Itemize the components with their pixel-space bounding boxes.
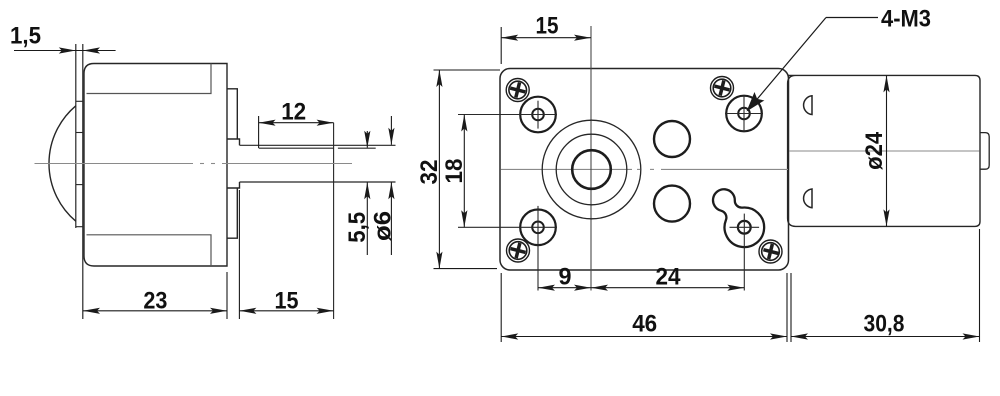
body inner contour bottom bbox=[87, 235, 212, 266]
svg-text:9: 9 bbox=[559, 264, 572, 291]
shaft top line bbox=[240, 144, 396, 146]
dimension 32 bbox=[434, 70, 501, 269]
mounting hole bottom-left bbox=[458, 206, 557, 291]
shaft D-flat line bbox=[259, 147, 334, 149]
flat extension segment bbox=[338, 147, 376, 149]
svg-text:4-M3: 4-M3 bbox=[881, 6, 931, 33]
dimension 5,5 bbox=[366, 131, 368, 255]
screw bottom-left bbox=[507, 239, 530, 262]
screw top-left bbox=[506, 79, 529, 102]
dimension 15 left view bbox=[239, 190, 333, 319]
keyhole slot bbox=[713, 189, 764, 247]
svg-text:12: 12 bbox=[281, 99, 306, 126]
dimension 18 bbox=[463, 115, 465, 228]
front disc edge bbox=[227, 89, 237, 238]
centerline left view bbox=[35, 163, 353, 165]
dimension dia 6 bbox=[390, 116, 392, 255]
cap plate top edge bbox=[76, 100, 83, 102]
idler hole upper bbox=[654, 121, 690, 157]
end cap back line / extension bbox=[82, 44, 84, 319]
svg-text:23: 23 bbox=[143, 288, 167, 315]
svg-text:ø6: ø6 bbox=[370, 211, 397, 241]
svg-text:1,5: 1,5 bbox=[10, 23, 41, 50]
motor can bulge arc bbox=[49, 106, 76, 221]
plate vertical centerline bbox=[590, 26, 592, 291]
cap plate bottom edge bbox=[76, 226, 83, 228]
body inner contour top bbox=[87, 64, 212, 94]
svg-text:30,8: 30,8 bbox=[864, 311, 905, 338]
motor block bbox=[788, 75, 980, 226]
dimension dia 24 bbox=[886, 75, 888, 226]
mounting hole top-right (4-M3) bbox=[725, 95, 763, 132]
terminal tab lower bbox=[804, 189, 812, 208]
shaft bottom line bbox=[240, 181, 396, 183]
svg-text:24: 24 bbox=[656, 264, 682, 291]
dimension 9 and 24 bbox=[538, 287, 744, 289]
svg-text:32: 32 bbox=[416, 160, 443, 185]
dimension 30,8 bbox=[791, 229, 980, 342]
dimension 12 bbox=[259, 116, 334, 148]
output shaft hole bbox=[572, 150, 611, 189]
svg-text:5,5: 5,5 bbox=[344, 212, 371, 243]
end cap front face line bbox=[75, 44, 77, 228]
motor centerline bbox=[789, 150, 980, 152]
svg-text:ø24: ø24 bbox=[861, 131, 888, 170]
cap tick upper bbox=[76, 132, 83, 134]
central gear hub circles bbox=[542, 120, 641, 219]
plate horizontal centerline bbox=[501, 168, 789, 170]
keyhole inner hole bbox=[738, 221, 751, 234]
idler hole lower bbox=[654, 186, 690, 222]
gearbox plate bbox=[500, 69, 789, 271]
svg-text:46: 46 bbox=[632, 311, 657, 338]
dimension 46 bbox=[501, 273, 787, 342]
screw bottom-right bbox=[759, 240, 782, 263]
motor body outline bbox=[84, 64, 227, 267]
terminal tab upper bbox=[804, 96, 812, 115]
screw top-right bbox=[711, 77, 734, 100]
dimension 1,5 bbox=[14, 50, 116, 52]
dimension 23 bbox=[83, 272, 227, 319]
label 4-M3 with leader bbox=[748, 18, 879, 111]
dimension 15 top bbox=[501, 27, 591, 64]
motor side bump bbox=[980, 133, 989, 170]
cap tick lower bbox=[76, 184, 83, 186]
svg-text:15: 15 bbox=[275, 288, 299, 315]
svg-text:18: 18 bbox=[441, 159, 468, 184]
shaft end / extension line bbox=[333, 123, 335, 319]
mounting hole top-left bbox=[458, 97, 557, 133]
bearing boss bbox=[227, 139, 240, 188]
keyhole vertical extension bbox=[743, 214, 745, 291]
svg-text:15: 15 bbox=[536, 13, 559, 40]
